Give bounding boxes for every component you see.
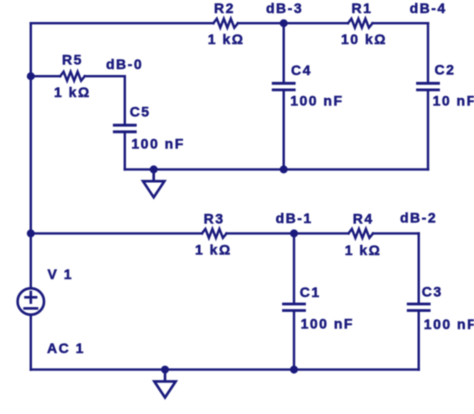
resistor R2: [213, 19, 238, 28]
wire dB-3 down to C4: [283, 23, 285, 82]
wire R1 to dB-4 corner: [373, 22, 429, 24]
svg-text:dB-4: dB-4: [410, 0, 447, 16]
ground (top): [143, 169, 164, 197]
wire top ground rail: [125, 168, 428, 170]
capacitor C5: [114, 125, 135, 132]
svg-text:1 kΩ: 1 kΩ: [345, 242, 382, 258]
svg-text:dB-3: dB-3: [266, 0, 303, 16]
node bottom ground junction dot: [161, 366, 169, 374]
svg-text:10 nF: 10 nF: [433, 93, 474, 109]
svg-text:100 nF: 100 nF: [131, 135, 184, 151]
svg-text:100 nF: 100 nF: [301, 316, 354, 332]
voltage source V1: [18, 288, 44, 314]
wire dB-1 to R4: [294, 232, 349, 234]
svg-text:dB-2: dB-2: [400, 210, 437, 226]
wire dB-3 to R1: [284, 22, 348, 24]
wire left vertical upper (top corner to R5 tap): [30, 23, 32, 76]
capacitor C3: [408, 304, 429, 311]
svg-text:R3: R3: [204, 210, 225, 226]
svg-text:dB-0: dB-0: [106, 56, 143, 72]
svg-text:100 nF: 100 nF: [424, 316, 474, 332]
wire left vertical middle (R5 tap to R3 tap): [30, 76, 32, 233]
wire R5 tap to R5: [31, 75, 60, 77]
wire R4 to dB-2 corner: [373, 232, 419, 234]
svg-text:dB-1: dB-1: [276, 210, 313, 226]
wire dB-1 down to C1: [293, 233, 295, 302]
svg-text:R4: R4: [353, 210, 374, 226]
svg-text:C3: C3: [422, 284, 443, 300]
resistor R3: [202, 229, 227, 238]
svg-text:R5: R5: [62, 52, 83, 68]
svg-text:C5: C5: [130, 104, 151, 120]
wire R3 tap to R3: [31, 232, 202, 234]
wire bottom rail: [31, 368, 419, 370]
node R5 tap junction dot: [27, 72, 35, 80]
node dB-3 junction dot: [280, 19, 288, 27]
wire R3 to dB-1: [227, 232, 295, 234]
capacitor C1: [284, 304, 305, 311]
wire V1 to bottom rail: [30, 316, 32, 370]
wire C3 down to bottom rail corner: [418, 312, 420, 370]
node C4-rail junction dot: [280, 165, 288, 173]
svg-text:AC 1: AC 1: [47, 340, 85, 356]
svg-text:R2: R2: [214, 0, 235, 16]
wire dB-4 down to C2: [427, 23, 429, 82]
wire C4 down to top ground rail: [283, 91, 285, 169]
resistor R1: [348, 19, 373, 28]
svg-text:V 1: V 1: [48, 266, 74, 282]
node R3 tap junction dot: [27, 229, 35, 237]
wire R5 to dB-0 corner and down to C5: [85, 76, 125, 124]
svg-text:100 nF: 100 nF: [290, 93, 343, 109]
svg-text:C2: C2: [435, 62, 456, 78]
svg-text:R1: R1: [352, 0, 373, 16]
wire R3 tap down to V1: [30, 233, 32, 287]
ground (bottom): [154, 370, 175, 398]
svg-text:1 kΩ: 1 kΩ: [195, 241, 232, 257]
wire R2 to dB-3: [238, 22, 284, 24]
resistor R4: [349, 229, 374, 238]
capacitor C4: [273, 83, 294, 90]
svg-text:10 kΩ: 10 kΩ: [341, 31, 387, 47]
node C1-rail junction dot: [290, 366, 298, 374]
resistor R5: [60, 72, 84, 81]
wire top horizontal from left corner to R2: [31, 22, 214, 24]
svg-text:C1: C1: [300, 284, 321, 300]
wire C5 down to top ground rail: [124, 133, 126, 169]
wire C2 down to top ground rail corner: [427, 91, 429, 169]
svg-text:C4: C4: [291, 62, 312, 78]
node dB-1 junction dot: [290, 229, 298, 237]
wire C1 down to bottom rail: [293, 312, 295, 370]
wire dB-2 down to C3: [418, 233, 420, 302]
node top ground junction dot: [150, 165, 158, 173]
svg-text:1 kΩ: 1 kΩ: [54, 84, 91, 100]
svg-text:1 kΩ: 1 kΩ: [208, 31, 245, 47]
capacitor C2: [418, 83, 439, 90]
